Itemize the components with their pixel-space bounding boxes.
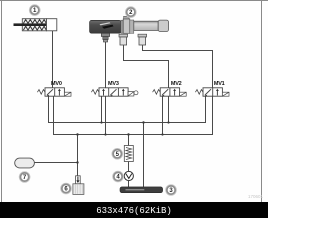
label bubble 5	[112, 148, 123, 159]
check valve 4 circle	[124, 171, 133, 180]
wire: bus A drop to hammer bar 3	[143, 123, 145, 188]
wire: bus B drop to spring 5	[128, 135, 130, 146]
label bubble 1	[29, 5, 40, 16]
wire: MV2 left port to bus B	[162, 96, 164, 134]
node junction MV3-L / bus A	[100, 121, 102, 123]
label bubble 2	[125, 7, 136, 18]
svg-text:170601: 170601	[248, 194, 264, 199]
valve MV1 (3/2 solenoid)	[195, 88, 229, 97]
regulator 2 right collar	[130, 20, 134, 33]
label bubble 3	[166, 185, 177, 196]
svg-text:MV0: MV0	[51, 81, 62, 87]
node junction bus B / muffler drop	[76, 133, 78, 135]
regulator 2 leg1	[119, 34, 128, 37]
wire: MV3 left port to bus A	[101, 96, 103, 122]
regulator 2 left fitting	[101, 33, 109, 36]
svg-text:MV3: MV3	[108, 81, 119, 87]
wire: bus B drop to muffler 6	[77, 135, 79, 176]
node junction bus A / bar drop	[142, 121, 144, 123]
regulator 2 dark streak	[102, 25, 114, 29]
spring 5 box	[124, 146, 133, 162]
frame border left	[1, 0, 2, 202]
regulator 2 glint	[100, 22, 111, 25]
label bubble 7	[19, 172, 30, 183]
muffler 6 stem with arrow	[73, 176, 84, 195]
regulator 2 middle block	[123, 19, 130, 33]
node junction MV3-R / bus B	[104, 133, 106, 135]
node junction bus B / spring drop	[127, 133, 129, 135]
node junction MV2-L / bus B	[161, 133, 163, 135]
svg-text:633x476(62KiB): 633x476(62KiB)	[96, 206, 172, 216]
wire: cylinder 1 port down to valve MV0	[52, 31, 54, 88]
wire: check valve 4 to bar 3	[128, 181, 130, 187]
wire: bus A supply rail	[49, 96, 206, 122]
regulator 2 left collar	[121, 20, 123, 33]
valve MV2 (3/2 solenoid)	[153, 88, 187, 97]
svg-text:MV2: MV2	[171, 81, 182, 87]
node junction reservoir line	[76, 161, 78, 163]
reservoir 7 capsule	[15, 158, 35, 168]
wire: regulator 2 left fitting down to valve MV3	[105, 42, 107, 88]
wire: spring 5 to check valve 4	[128, 162, 130, 172]
wire: regulator 2 leg1 to valve MV2 pilot	[124, 45, 169, 88]
valve MV3 (3/2 solenoid, 3 boxes)	[91, 88, 138, 97]
wire: bus B exhaust rail	[54, 96, 213, 134]
valve MV0 (3/2 solenoid)	[37, 88, 71, 97]
wire: regulator 2 leg2 to valve MV1 pilot	[143, 45, 213, 88]
cylinder C1 end cap	[47, 19, 57, 31]
frame border right	[261, 0, 262, 202]
wire: MV3 right port to bus B	[105, 96, 107, 134]
wire: MV2 right port to bus A	[168, 96, 170, 122]
cylinder C1 body	[14, 19, 57, 31]
node junction MV2-R / bus A	[167, 121, 169, 123]
cylinder C1 spring bottom row	[23, 26, 46, 30]
regulator 2 leg2	[138, 34, 147, 37]
muffler 6 body	[73, 184, 84, 195]
regulator 2 top notch	[124, 16, 129, 19]
label bubble 4	[113, 171, 124, 182]
wire: reservoir 7 to muffler drop	[34, 162, 78, 164]
cylinder C1 spring top row	[23, 20, 46, 24]
frame border top	[0, 0, 268, 1]
caption bar	[0, 202, 268, 218]
cylinder C1 piston rod	[14, 23, 47, 26]
svg-text:MV1: MV1	[214, 81, 225, 87]
regulator assembly 2 photo: dark main body	[90, 16, 169, 45]
label bubble 6	[61, 183, 72, 194]
regulator 2 barrel	[134, 21, 158, 30]
hammer bar 3	[120, 187, 163, 193]
regulator 2 end cap	[158, 20, 168, 31]
